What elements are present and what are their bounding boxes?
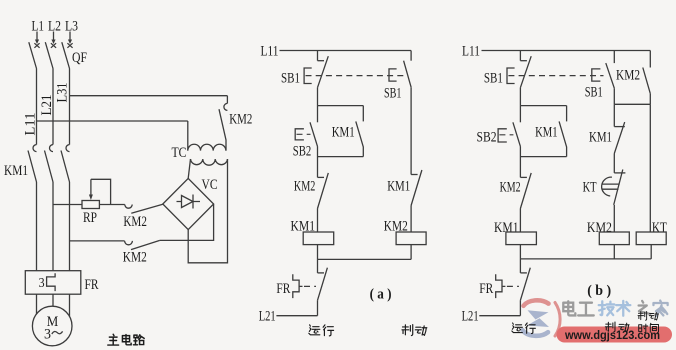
svg-text:FR: FR [479, 281, 493, 297]
svg-text:QF: QF [72, 50, 87, 66]
wire SB1 to KM1 contact (a right) [410, 87, 412, 174]
wire to KM1 contact (b middle) [613, 104, 615, 126]
FR linkage dashes (b) [507, 285, 519, 287]
SB1 actuator bracket (b middle) [592, 69, 601, 81]
contact KM1 NC (a right) [411, 174, 418, 176]
wire left branch top (b) [519, 51, 521, 61]
label 运行 (b) [512, 323, 522, 333]
wire coil KM1 to rail (b) [519, 245, 521, 259]
wire left path into SB2 (b) [519, 106, 521, 123]
SB1 actuator bracket (a right) [389, 69, 397, 81]
svg-text:3: 3 [39, 276, 45, 291]
wire SB1 down (b middle) [613, 88, 615, 104]
svg-text:( b ): ( b ) [587, 283, 611, 299]
wire KM2 down (b right) [649, 94, 651, 105]
wire phase 1 lower [36, 182, 38, 271]
wire right branch top (a) [410, 51, 412, 61]
wire bottom rail (a) [318, 258, 412, 260]
wire L21 (a) [276, 315, 317, 317]
wire coil KT to rail (b) [650, 245, 652, 259]
contact KM2 NC interlock (a) [318, 176, 325, 178]
wire rail to FR contact (b) [519, 259, 521, 273]
svg-text:RP: RP [83, 210, 97, 226]
label 制动 (b right upper) [638, 311, 647, 320]
pushbutton SB2 NO contact (b) [513, 122, 521, 146]
label 制动 (b middle) [605, 322, 615, 332]
coil KT (b) [636, 232, 666, 245]
wire phase 2 lower [52, 182, 54, 271]
svg-text:KT: KT [583, 180, 597, 196]
node L11 top wire (a) [280, 50, 412, 52]
node L11 top wire (b) [482, 50, 651, 52]
wire right branch long vertical (b) [649, 104, 651, 232]
SB1 linkage dashed line (b) [508, 75, 603, 77]
svg-text:KT: KT [652, 220, 667, 236]
RP wiper arrow [90, 179, 92, 195]
contactor KM1 main contact pole 1 [33, 145, 37, 152]
wire FR to motor lead 3 [69, 294, 71, 316]
transformer TC primary lead [187, 121, 189, 151]
svg-text:KM2: KM2 [123, 214, 146, 230]
svg-text:KM1: KM1 [332, 125, 355, 141]
contact KM1 NC (b middle) [614, 126, 625, 128]
breaker QF pole 2 blade [45, 42, 53, 68]
svg-text:L11: L11 [23, 113, 39, 136]
SB2 actuator bracket (a) [295, 129, 304, 140]
label 运行 (a) [309, 325, 320, 335]
wire L11 branch to TC primary [37, 120, 188, 122]
svg-text:FR: FR [85, 277, 99, 293]
svg-text:KM2: KM2 [500, 180, 521, 196]
contact FR NC (b) [520, 272, 527, 274]
wire SB2 to KM2 contact (b) [519, 146, 521, 177]
contact KM2 NC interlock (b) [520, 176, 527, 178]
FR actuator symbol (b) [496, 274, 506, 298]
svg-text:VC: VC [202, 177, 218, 193]
SB1 actuator bracket (a left) [304, 68, 312, 84]
watermark char 术 [616, 301, 630, 316]
svg-text:KM2: KM2 [229, 112, 252, 128]
label 制动 (a) [402, 325, 413, 336]
pushbutton SB1 NO contact (a right) [404, 61, 412, 87]
wire right branch top (b) [649, 51, 651, 68]
wire left branch top (a) [317, 51, 319, 61]
wire to rheostat RP [53, 204, 82, 206]
wire secondary right down to rectifier bottom rail [188, 159, 227, 263]
FR heater element [47, 273, 56, 291]
contactor KM1 main contact pole 2 [50, 145, 54, 152]
watermark logo red top arc [524, 300, 549, 306]
svg-text:FR: FR [276, 281, 290, 297]
svg-text:L21: L21 [259, 309, 276, 325]
wire RP to KM2 contact [99, 204, 124, 206]
rectifier VC bridge diamond [163, 178, 214, 229]
pushbutton SB1 NO contact (b middle) [606, 63, 615, 88]
coil KM2 (a) [396, 232, 426, 245]
svg-text:KM1: KM1 [589, 130, 612, 146]
svg-text:SB1: SB1 [384, 86, 402, 102]
svg-text:L31: L31 [55, 83, 71, 103]
FR actuator symbol (a) [293, 274, 303, 298]
KT delay semicircle [602, 177, 612, 196]
svg-text:L3: L3 [65, 19, 78, 35]
svg-text:KM2: KM2 [123, 250, 147, 266]
coil KM1 (a) [303, 232, 334, 245]
FR linkage dashes (a) [304, 285, 316, 287]
wire left path into SB2 (a) [317, 106, 319, 123]
watermark char 电 [563, 301, 575, 315]
wire L21 (b) [479, 315, 520, 317]
contact KM1 self-holding (a) [362, 106, 364, 122]
svg-text:L21: L21 [462, 309, 479, 325]
svg-text:( a ): ( a ) [370, 287, 392, 303]
watermark char 工 [578, 303, 594, 316]
svg-text:L2: L2 [48, 19, 61, 35]
RP wiper loop wire [91, 179, 111, 204]
wire parallel box bottom (b) [520, 156, 566, 158]
wire SB1 to parallel box (a) [317, 88, 319, 106]
wire FR to motor lead 2 [52, 294, 54, 306]
svg-text:KM1: KM1 [535, 125, 558, 141]
svg-text:L1: L1 [32, 19, 45, 35]
label 主电路 (main circuit) [108, 334, 119, 345]
svg-text:KM2: KM2 [294, 179, 316, 195]
wire KM1 to KT contact (b) [613, 154, 615, 173]
wire phase 3 (L31) vertical [69, 69, 71, 145]
incoming line arrow L2 [53, 32, 55, 41]
terminal cross L3 [67, 43, 72, 48]
wire SB1 to parallel box (b) [519, 88, 521, 106]
watermark char 家 [653, 301, 667, 316]
watermark logo red right arc [555, 303, 560, 337]
contactor KM2 contact (lower DC feed) [125, 241, 133, 245]
wire middle branch top (b) [613, 51, 615, 64]
svg-text:KM1: KM1 [387, 179, 410, 195]
terminal cross L2 [51, 43, 56, 48]
wire rail to FR contact (a) [317, 259, 319, 273]
svg-text:L11: L11 [462, 44, 480, 60]
wire coil KM2 to rail (b) [613, 245, 615, 259]
wire FR to L21 (b) [519, 300, 521, 315]
wire secondary left to rectifier top [188, 159, 190, 178]
svg-text:KM2: KM2 [616, 68, 640, 84]
breaker QF pole 1 blade [29, 42, 37, 68]
pushbutton SB2 NO contact (a) [310, 122, 318, 146]
coil KM1 (b) [506, 232, 537, 245]
watermark logo blue bottom arc [523, 330, 549, 336]
wire phase 2 (L21) vertical [52, 69, 54, 145]
pushbutton SB1 NC contact (a) [318, 60, 325, 62]
pushbutton SB1 NC contact (b) [520, 60, 527, 62]
wire KM2 to coil KM1 (a) [317, 209, 319, 233]
motor M circle [32, 306, 72, 346]
SB2 linkage dashes (a) [297, 133, 311, 135]
svg-text:L21: L21 [39, 95, 55, 116]
incoming line arrow L1 [36, 32, 38, 41]
svg-text:TC: TC [172, 145, 187, 161]
resistor RP body [82, 201, 99, 209]
svg-text:L11: L11 [261, 44, 279, 60]
wire SB2 to KM2 contact (a) [317, 146, 319, 177]
SB2 linkage dashes (b) [499, 134, 513, 136]
transformer TC secondary winding [191, 159, 228, 165]
coil KM2 (b) [599, 232, 629, 245]
wire coil KM2 to rail (a) [410, 245, 412, 260]
wire L31 lower branch [70, 240, 125, 242]
wire parallel box bottom (a) [318, 156, 364, 158]
contactor KM1 main contact pole 3 [66, 145, 70, 152]
incoming line arrow L3 [69, 32, 71, 41]
svg-text:SB1: SB1 [484, 71, 503, 87]
thermal relay FR box [25, 271, 81, 295]
wire KM1 contact to coil KM2 (a) [410, 206, 412, 233]
breaker QF pole 3 blade [62, 42, 70, 68]
wire parallel box top (b) [520, 105, 566, 107]
contact KM1 self-holding (b) [566, 106, 568, 122]
wire KT contact to coil KM2 (b) [613, 205, 615, 232]
svg-text:KM1: KM1 [4, 163, 28, 179]
wire phase 1 (L11) vertical [36, 69, 38, 145]
svg-text:SB2: SB2 [477, 130, 497, 146]
label 时间 (b right lower) [639, 324, 648, 332]
wire FR to motor lead 1 [36, 294, 38, 314]
contact KT time-delay NC (b) [614, 172, 625, 174]
SB2 actuator bracket (b) [498, 129, 507, 142]
watermark char 之 [639, 301, 651, 314]
SB1 linkage dashed line (a) [306, 75, 405, 77]
contactor KM2 contact (TC primary) [226, 96, 228, 104]
svg-text:SB1: SB1 [281, 71, 300, 87]
rectifier diode [177, 195, 201, 209]
svg-text:SB1: SB1 [585, 85, 603, 101]
watermark logo hourglass [527, 310, 549, 327]
wire parallel box top (a) [318, 105, 364, 107]
contactor KM2 contact (upper DC feed) [125, 205, 132, 209]
wire KM2 to coil KM1 (b) [519, 209, 521, 233]
wire bottom rail (b) [520, 258, 651, 260]
wire coil KM1 to rail (a) [317, 245, 319, 260]
wire phase 3 lower [69, 182, 71, 271]
contact FR NC (a) [318, 272, 325, 274]
watermark char 技 [599, 301, 615, 315]
svg-text:SB2: SB2 [293, 144, 312, 160]
wire FR to L21 (a) [317, 300, 319, 315]
terminal cross L1 [34, 43, 39, 48]
watermark red band [557, 327, 673, 343]
wire L31 branch to TC via KM2 [70, 95, 228, 97]
svg-text:3: 3 [44, 327, 51, 343]
wire rejoin bar (b) [614, 103, 650, 105]
contact KM2 self-holding (b) [643, 68, 651, 94]
transformer TC primary winding [188, 144, 226, 150]
SB1 actuator bracket (b left) [507, 68, 515, 84]
wire lower KM2 to rectifier right corner [160, 204, 214, 240]
